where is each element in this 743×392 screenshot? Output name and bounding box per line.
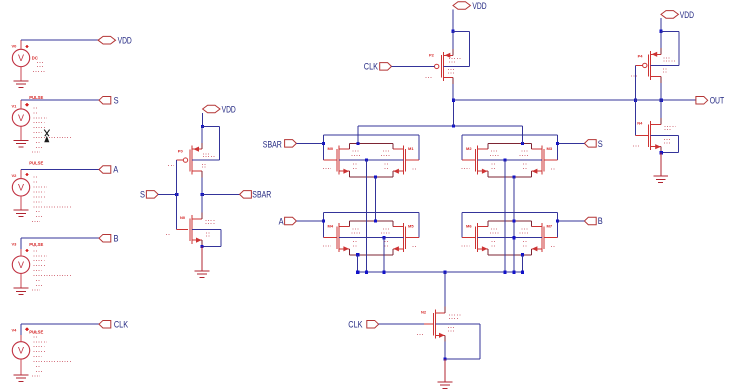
parameter text of V1 (32, 108, 73, 152)
port VDD (supply pin) (98, 36, 132, 46)
svg-text:CLK: CLK (114, 319, 128, 329)
wire N0 bulk loop (192, 230, 221, 247)
wire OUT node (636, 99, 696, 101)
wire output rail (453, 99, 635, 101)
transistor M5 (block BL right NMOS) (393, 223, 419, 252)
wire source link block BR (488, 254, 532, 256)
labels of N0 (166, 215, 215, 236)
svg-text:M6: M6 (466, 224, 472, 229)
svg-text:V: V (18, 346, 24, 356)
transistor P2 (clock PMOS) (435, 52, 454, 81)
port SBAR (select-bar input) (263, 139, 297, 149)
wire drain risers block TL (349, 143, 393, 149)
node N2 source junction (443, 357, 446, 360)
wire gate loop of block BL (323, 213, 419, 238)
node VDD junction (inverter) (201, 125, 204, 128)
wire P4 bulk loop (661, 31, 679, 65)
wire source link block TR (488, 176, 532, 178)
wire drain risers block BL (349, 221, 393, 227)
node rail junction x357 (356, 271, 359, 274)
svg-text:DC: DC (32, 56, 38, 61)
svg-text:V3: V3 (12, 242, 18, 247)
wire block BR to B (557, 220, 584, 222)
svg-text:N2: N2 (421, 310, 427, 315)
transistor M4 (block BL left NMOS) (323, 223, 349, 252)
wire inverter VDD bulk loop (202, 127, 219, 161)
wire N2 bulk loop (435, 324, 480, 359)
wire net S (left column) (21, 99, 99, 101)
wire P4 source riser (660, 31, 662, 54)
wire N2 drain riser (444, 272, 446, 313)
wire N0 to ground (201, 246, 203, 271)
wire source link block BL (349, 254, 393, 256)
wire source risers block BL (349, 249, 393, 255)
svg-text:V1: V1 (12, 104, 18, 109)
node BL drain junction (374, 219, 377, 222)
wire P2 bulk (444, 65, 470, 67)
wire drain link block TR (488, 142, 532, 144)
labels of V4 (12, 328, 44, 335)
wire N0 drain riser (201, 194, 203, 219)
wire drain link block BL (349, 220, 393, 222)
node VDD junction (out) (659, 30, 662, 33)
node TR drain junction (521, 142, 524, 145)
node input junction block TL (322, 142, 325, 145)
node mid junction (452, 125, 455, 128)
node TR source junction (512, 175, 515, 178)
parameter text of V4 (32, 332, 73, 376)
svg-text:VDD: VDD (118, 36, 133, 46)
transistor M1 (block TL right NMOS) (393, 146, 419, 175)
port OUT (output pin) (696, 96, 725, 106)
node N0 source junction (200, 245, 203, 248)
labels of V3 (12, 242, 44, 253)
wire net B (left column) (21, 237, 99, 239)
node N4 source junction (660, 151, 663, 154)
transistor M6 (block BR left NMOS) (462, 223, 488, 252)
svg-text:SBAR: SBAR (252, 189, 271, 199)
labels of block BL (323, 224, 418, 247)
port CLK (input pin) (99, 319, 128, 329)
wire P0 bulk (192, 159, 219, 161)
svg-text:M5: M5 (408, 224, 414, 229)
wire S to inverter gate (158, 193, 177, 195)
svg-text:VDD: VDD (680, 10, 695, 20)
svg-text:VDD: VDD (222, 104, 237, 114)
wire BL bulk drop (383, 238, 385, 273)
wire gate loop of block TL (323, 135, 419, 160)
port CLK (bottom clock input) (348, 320, 378, 330)
node rail junction x384 (383, 271, 386, 274)
svg-text:VDD: VDD (472, 1, 487, 11)
labels of N2 (417, 310, 462, 335)
node BR drain junction (512, 219, 515, 222)
transistor N4 (output NMOS) (636, 121, 662, 150)
node input junction block TR (556, 142, 559, 145)
wire P0 source riser (201, 127, 203, 150)
port CLK (top clock input) (364, 62, 392, 72)
wire bottom rail (358, 271, 523, 273)
wire TL source to BL drain (375, 177, 377, 221)
parameter text of V0 (33, 62, 46, 71)
port S (input pin) (99, 95, 119, 105)
svg-text:SBAR: SBAR (263, 139, 282, 149)
svg-text:P0: P0 (178, 149, 184, 154)
svg-text:N0: N0 (180, 215, 186, 220)
port B (data input) (584, 216, 602, 226)
wire N2 source riser (444, 335, 446, 359)
wire TL bulk drop (365, 160, 367, 272)
node OUT junction (660, 99, 663, 102)
port VDD (inverter supply) (203, 104, 237, 114)
node TL source junction (374, 175, 377, 178)
svg-text:S: S (140, 190, 145, 200)
wire drain link block TL (349, 142, 393, 144)
svg-text:A: A (279, 216, 284, 226)
port B (input pin) (99, 233, 119, 243)
wire gate loop of block TR (462, 135, 558, 160)
svg-text:CLK: CLK (364, 62, 378, 72)
node rail junction x522 (521, 271, 524, 274)
wire source risers block BR (488, 249, 532, 255)
wire N2 to ground (444, 359, 446, 382)
node inverter input junction (175, 193, 178, 196)
voltage source V3 (B) (12, 238, 29, 288)
svg-text:V: V (18, 260, 24, 270)
parameter text of V2 (32, 177, 73, 221)
wire bulk link block TL (339, 159, 403, 161)
ground (output inverter) (653, 176, 668, 183)
wire mid distribution (358, 126, 523, 143)
labels of V1 (12, 95, 44, 109)
voltage source V2 (A) (12, 170, 29, 211)
svg-text:S: S (598, 139, 603, 149)
port VDD (top clock supply) (453, 1, 487, 11)
wire clk source to mid (452, 100, 454, 126)
wire TR bulk drop (504, 160, 506, 272)
wire source risers block TL (349, 171, 393, 177)
wire N0 source riser (201, 240, 203, 246)
ground (inverter) (195, 271, 210, 278)
svg-text:OUT: OUT (710, 96, 725, 106)
wire top PMOS bulk loop (453, 31, 469, 66)
port A (input pin) (99, 165, 118, 175)
wire P4 drain riser (660, 76, 662, 100)
svg-text:PULSE: PULSE (29, 161, 43, 166)
wire output gate vertical (635, 65, 637, 135)
svg-text:M0: M0 (328, 146, 334, 151)
parameter text of V3 (32, 246, 73, 290)
transistor P4 (output PMOS) (636, 51, 662, 80)
wire source link block TL (349, 176, 393, 178)
wire N4 drain riser (660, 100, 662, 124)
svg-text:V: V (18, 53, 24, 63)
wire source risers block TR (488, 171, 532, 177)
ground of V1 (14, 140, 29, 147)
transistor M2 (block TR left NMOS) (462, 146, 488, 175)
wire P2 drain riser (452, 78, 454, 101)
svg-text:N4: N4 (637, 120, 643, 125)
labels of V0 (12, 44, 38, 61)
labels of P4 (631, 53, 676, 76)
wire BL source drop (357, 255, 359, 272)
wire block TR to S (557, 142, 584, 144)
wire net A (left column) (21, 169, 99, 171)
svg-text:M4: M4 (328, 224, 334, 229)
port VDD (output supply) (661, 10, 694, 20)
node inverter output junction (201, 193, 204, 196)
wire VDD to inverter (202, 113, 204, 127)
wire VDD down (out) (660, 18, 662, 31)
wire net CLK (left column) (21, 323, 99, 325)
wire TR source drop (513, 177, 515, 272)
wire N4 bulk loop (650, 136, 678, 153)
voltage source V1 (S) (12, 100, 29, 140)
port SBAR (inverter output) (240, 189, 272, 199)
node BL source junction (356, 253, 359, 256)
labels of block TR (461, 146, 556, 169)
node BR source junction (521, 253, 524, 256)
wire bulk link block TR (478, 159, 542, 161)
wire N4 to ground (660, 153, 662, 176)
ground of V0 (14, 81, 29, 88)
svg-text:V4: V4 (12, 328, 18, 333)
ground of V3 (14, 288, 29, 295)
svg-text:P4: P4 (638, 53, 644, 58)
wire inverter output (202, 193, 239, 195)
labels of P0 (168, 149, 215, 168)
svg-text:V2: V2 (12, 173, 18, 178)
wire gate loop of block BR (462, 213, 558, 238)
label S text (140, 190, 145, 200)
svg-text:M3: M3 (547, 146, 553, 151)
svg-text:B: B (598, 216, 603, 226)
svg-text:M2: M2 (466, 146, 472, 151)
svg-text:A: A (113, 165, 118, 175)
svg-text:M1: M1 (408, 146, 414, 151)
node rail junction x366 (365, 271, 368, 274)
port S (select input right) (584, 139, 602, 149)
wire SBAR to block TL (296, 142, 323, 144)
port A (data input) (279, 216, 297, 226)
transistor M3 (block TR right NMOS) (531, 146, 557, 175)
svg-text:V: V (18, 113, 24, 123)
node VDD junction (top) (451, 30, 454, 33)
svg-text:V: V (18, 183, 24, 193)
wire P2 source riser (452, 31, 454, 55)
wire VDD down (top) (452, 9, 454, 31)
voltage source V0 (VDD) (12, 40, 29, 81)
transistor N0 (inverter NMOS) (177, 215, 202, 244)
wire BR source drop (522, 255, 524, 272)
wire CLK to N2 gate (379, 323, 434, 325)
node BL bulk junction (383, 236, 386, 239)
ground (clock NMOS) (438, 382, 453, 389)
wire P0 drain riser (201, 171, 203, 194)
wire P4 bulk (650, 64, 679, 66)
node BR bulk junction (512, 236, 515, 239)
node TR bulk junction (503, 159, 506, 162)
wire bulk link block BL (339, 237, 403, 239)
node rail junction x504 (503, 271, 506, 274)
labels of V2 (12, 161, 44, 178)
node input junction block BL (322, 219, 325, 222)
svg-text:S: S (114, 95, 119, 105)
wire drain risers block TR (488, 143, 532, 149)
ground of V2 (14, 210, 29, 217)
wire drain risers block BR (488, 221, 532, 227)
wire N4 source riser (660, 147, 662, 153)
transistor P0 (inverter PMOS) (177, 146, 203, 175)
transistor N2 (clock NMOS) (424, 310, 445, 339)
node TL drain junction (356, 142, 359, 145)
node rail junction x445 (443, 271, 446, 274)
transistor M7 (block BR right NMOS) (531, 223, 557, 252)
transistor M0 (block TL left NMOS) (323, 146, 349, 175)
labels of block BR (461, 224, 556, 247)
labels of P2 (426, 52, 462, 77)
svg-text:M7: M7 (547, 224, 553, 229)
svg-text:CLK: CLK (348, 320, 362, 330)
svg-text:PULSE: PULSE (29, 95, 43, 100)
labels of N4 (633, 120, 676, 145)
node input junction block BR (556, 219, 559, 222)
ground of V4 (14, 375, 29, 382)
svg-text:B: B (114, 233, 119, 243)
svg-text:P2: P2 (429, 52, 435, 57)
port S (inverter input) (146, 191, 158, 199)
node rail junction x513 (512, 271, 515, 274)
node TL bulk junction (365, 159, 368, 162)
wire inverter gate vertical (176, 160, 178, 230)
labels of block TL (323, 146, 418, 169)
node output node junction (top) (452, 99, 455, 102)
wire CLK to P2 gate (392, 65, 435, 67)
wire drain link block BR (488, 220, 532, 222)
svg-text:V0: V0 (12, 44, 18, 49)
wire bulk link block BR (478, 237, 542, 239)
voltage source V4 (CLK) (12, 324, 29, 375)
wire net VDD (left column) (21, 39, 99, 41)
probe marker glyph near V1 (44, 130, 49, 143)
node output gate junction (634, 99, 637, 102)
wire A to block BL (296, 220, 323, 222)
